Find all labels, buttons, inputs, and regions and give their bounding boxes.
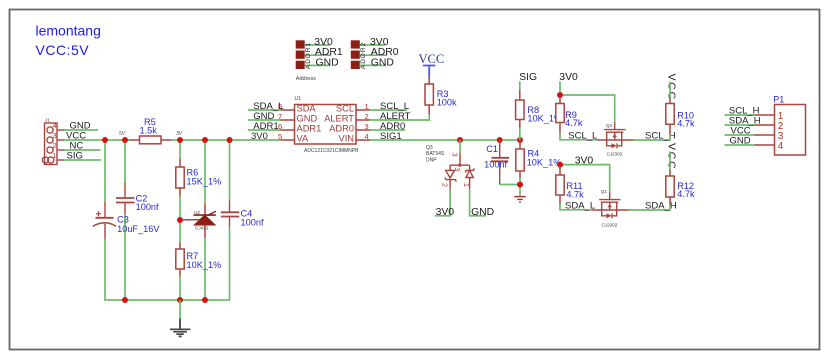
transistor Q2 CJ2302 <box>597 121 635 149</box>
wire 3V0 below Q3 <box>435 190 450 216</box>
diode pair Q3 BAT54S <box>445 140 474 190</box>
transistor Q1 CJ2302 <box>592 190 630 218</box>
svg-text:SDA: SDA <box>297 104 317 114</box>
junction dot 205,300 <box>202 297 208 303</box>
svg-text:VCC: VCC <box>666 74 678 102</box>
svg-text:3V0: 3V0 <box>251 131 268 142</box>
wire ALERT from U1 to R3 <box>370 115 429 121</box>
wire GND row J1 <box>64 129 98 131</box>
resistor R6 <box>176 159 184 197</box>
wire GND at ADDR1 <box>305 64 331 66</box>
svg-text:SIG1: SIG1 <box>380 131 402 142</box>
wire SIG to R8 <box>519 81 521 90</box>
P1 pin stubs <box>755 115 775 145</box>
capacitor C1 <box>491 140 509 185</box>
svg-text:SIG: SIG <box>519 72 537 83</box>
svg-text:CJ432: CJ432 <box>195 226 209 231</box>
svg-text:4: 4 <box>53 121 57 130</box>
wire ADR1 at ADDR1 <box>305 54 331 56</box>
svg-text:GND: GND <box>316 57 339 68</box>
svg-text:CJ2302: CJ2302 <box>607 152 623 157</box>
svg-text:5: 5 <box>278 132 282 141</box>
header ADDR2 <box>351 40 360 69</box>
wire GND at P1 <box>725 144 755 146</box>
junction dot 125,300 <box>122 297 128 303</box>
svg-text:SCL_H: SCL_H <box>645 130 676 141</box>
svg-text:SIG: SIG <box>67 151 83 162</box>
svg-text:GND: GND <box>730 136 751 147</box>
header ADDR1 <box>296 40 305 69</box>
svg-text:GND: GND <box>471 207 494 218</box>
svg-text:VIN: VIN <box>339 134 355 144</box>
resistor R8 <box>516 90 524 128</box>
wire GND at ADDR2 <box>360 64 386 66</box>
wire SDA_H at P1 <box>725 124 755 126</box>
junction dot 560,164.6 <box>557 162 563 168</box>
capacitor C2 <box>116 183 135 215</box>
junction dot 180,140 <box>177 137 183 143</box>
svg-text:SDA_L: SDA_L <box>565 200 595 211</box>
svg-text:ADDR1: ADDR1 <box>305 42 312 70</box>
capacitor C3 polarized <box>93 202 116 239</box>
junction dot 205,140 <box>202 137 208 143</box>
wire SDA_L row <box>560 204 592 210</box>
IC U1 ADC121C021 <box>295 105 357 145</box>
wire SCL_H at P1 <box>725 114 755 116</box>
wire GND below Q3 <box>470 190 486 216</box>
svg-text:100nf: 100nf <box>136 202 159 212</box>
wire R12 corner <box>669 205 671 211</box>
svg-text:P1: P1 <box>773 94 784 104</box>
junction dot 125,140 <box>122 137 128 143</box>
junction dot 105,140 <box>102 137 108 143</box>
ground symbol at R4 <box>514 197 525 202</box>
junction dot 520,140 <box>517 137 523 143</box>
svg-text:10K_1%: 10K_1% <box>187 260 222 270</box>
junction dot 229.5,140 <box>227 137 233 143</box>
svg-text:J1: J1 <box>45 118 50 123</box>
svg-text:2: 2 <box>53 141 57 150</box>
svg-text:15K_1%: 15K_1% <box>187 177 222 187</box>
wire VCC to R10 <box>669 82 671 98</box>
wire SDA_H row <box>630 209 670 211</box>
junction dot 499.7,140 <box>497 137 503 143</box>
U1 left pin stubs <box>281 110 295 140</box>
svg-text:ADC121C021CIMMNPB: ADC121C021CIMMNPB <box>304 148 359 154</box>
resistor R4 <box>516 140 524 178</box>
svg-text:5V: 5V <box>119 131 126 137</box>
wire C1 bottom to R4 bottom <box>500 184 520 186</box>
svg-text:VCC: VCC <box>419 52 445 66</box>
svg-text:SDA_H: SDA_H <box>645 200 677 211</box>
wire SCL_H row <box>635 139 670 141</box>
svg-text:3V0: 3V0 <box>559 72 578 83</box>
svg-text:3: 3 <box>365 122 369 131</box>
svg-text:3V: 3V <box>176 131 183 137</box>
svg-text:Address: Address <box>296 76 316 82</box>
wire VCC main right of R5 to IC pin VA <box>172 139 281 141</box>
svg-text:4: 4 <box>778 141 784 152</box>
junction dot 180,300 <box>177 297 183 303</box>
wire ADR1 at U1 <box>248 129 281 131</box>
U1 right pin stubs <box>356 110 370 140</box>
junction dot 560,95 <box>557 92 563 98</box>
svg-text:C1: C1 <box>486 144 498 154</box>
resistor R10 <box>666 97 674 135</box>
shunt regulator U2 CJ432 <box>182 204 216 239</box>
svg-text:CJ2302: CJ2302 <box>602 222 618 227</box>
resistor R12 <box>666 170 674 205</box>
svg-text:4.7k: 4.7k <box>677 189 695 199</box>
resistor R9 <box>556 97 564 134</box>
wire C2 branch vertical x=125 <box>124 140 126 183</box>
wire 3V0 to R9 <box>559 81 561 95</box>
Q2 pin end marks <box>614 121 635 141</box>
svg-text:1: 1 <box>462 183 469 187</box>
ground symbol GND main <box>170 300 191 336</box>
wire 3V0 to Q2 gate <box>560 95 615 121</box>
svg-text:2: 2 <box>441 183 448 187</box>
svg-text:Q2: Q2 <box>606 123 613 128</box>
wire SCL_L at U1 right <box>370 109 407 111</box>
svg-text:U1: U1 <box>295 96 302 102</box>
resistor R7 <box>176 243 184 277</box>
svg-text:2: 2 <box>365 112 369 121</box>
svg-text:Q1: Q1 <box>601 189 608 194</box>
wire U2 branch vertical x=205 <box>204 140 206 204</box>
resistor R5 <box>129 136 172 144</box>
wire ADR0 at ADDR2 <box>360 54 387 56</box>
wire NC row J1 <box>64 149 101 151</box>
wire R8 to main <box>519 128 521 141</box>
svg-text:ALERT: ALERT <box>324 114 354 124</box>
junction dot 180,220 <box>177 217 183 223</box>
svg-text:4: 4 <box>365 132 369 141</box>
wire SCL_L row <box>560 134 597 140</box>
capacitor C4 <box>221 201 239 228</box>
resistor R3 <box>425 78 433 115</box>
wire bottom ground rail y=300 <box>104 299 230 301</box>
svg-text:ADR0: ADR0 <box>329 124 354 134</box>
svg-text:VCC: VCC <box>666 143 678 171</box>
wire R6 branch vertical x=180 <box>179 140 181 159</box>
svg-text:100nf: 100nf <box>484 160 507 170</box>
wire C4 branch vertical x=229.5 <box>229 140 231 201</box>
svg-text:SCL: SCL <box>336 104 354 114</box>
svg-text:1: 1 <box>53 151 57 160</box>
svg-text:3: 3 <box>53 131 57 140</box>
junction dot 520,184.5 <box>517 182 523 188</box>
svg-text:GND: GND <box>297 114 318 124</box>
svg-text:100k: 100k <box>437 97 457 107</box>
svg-text:GND: GND <box>371 57 394 68</box>
svg-text:DNP: DNP <box>426 158 437 164</box>
svg-text:BAT54S: BAT54S <box>426 151 445 157</box>
svg-text:4.7k: 4.7k <box>566 190 584 200</box>
svg-text:lemontang: lemontang <box>36 22 101 38</box>
connector J1 <box>42 123 64 165</box>
wire 3V0 at ADDR1 <box>305 44 330 46</box>
svg-text:VCC:5V: VCC:5V <box>36 42 90 58</box>
connector P1 <box>775 105 806 156</box>
svg-text:4.7k: 4.7k <box>565 118 583 128</box>
svg-text:1.5k: 1.5k <box>140 125 158 135</box>
wire R4 to ground <box>519 178 521 196</box>
svg-text:U2: U2 <box>194 210 200 215</box>
svg-text:3: 3 <box>451 153 458 157</box>
wire 3V0 to Q1 gate <box>560 165 610 190</box>
svg-text:ADR1: ADR1 <box>297 124 322 134</box>
wire ADR0 at U1 right <box>370 129 405 131</box>
resistor R11 <box>556 166 564 204</box>
Q1 pin end marks <box>609 190 630 211</box>
power symbol VCC <box>419 52 445 78</box>
svg-text:ADDR2: ADDR2 <box>360 42 367 70</box>
svg-text:4.7k: 4.7k <box>677 119 695 129</box>
wire VCC at P1 <box>725 134 755 136</box>
wire SDA_L at U1 <box>248 109 281 111</box>
svg-text:100nf: 100nf <box>241 218 264 228</box>
wire SIG row J1 <box>64 159 101 161</box>
svg-text:10uF_16V: 10uF_16V <box>117 224 160 234</box>
svg-text:1: 1 <box>365 102 369 111</box>
svg-text:3: 3 <box>453 167 460 171</box>
junction dot 460,140 <box>457 137 463 143</box>
svg-text:3V0: 3V0 <box>436 207 455 218</box>
svg-text:VA: VA <box>297 134 310 144</box>
svg-text:SCL_L: SCL_L <box>568 130 597 141</box>
wire R10 corner <box>669 135 671 141</box>
svg-text:10K_1%: 10K_1% <box>527 157 562 167</box>
wire VCC to R12 <box>669 152 671 170</box>
wire 3V0 at ADDR2 <box>360 44 385 46</box>
wire VCC main left <box>64 139 130 141</box>
wire SIG1 main from U1 pin4 <box>370 139 520 141</box>
wire C3 branch vertical x=105 <box>104 140 106 202</box>
wire GND at U1 <box>248 119 281 121</box>
